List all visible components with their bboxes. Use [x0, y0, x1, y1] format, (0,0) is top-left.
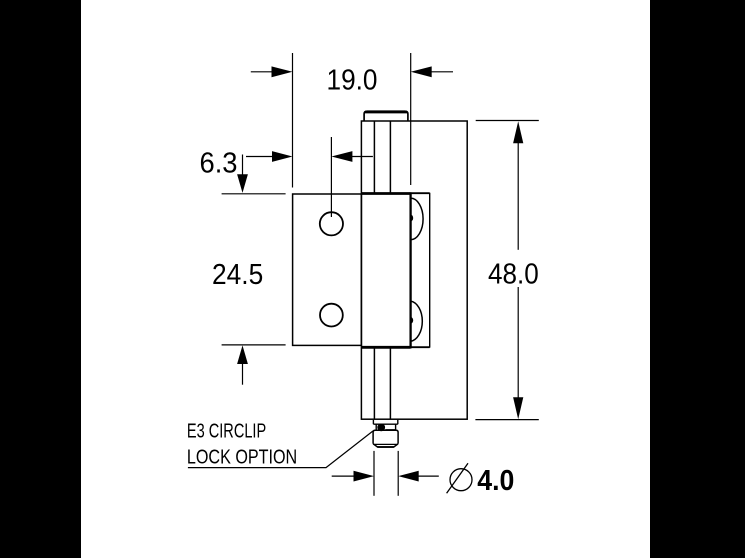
19.0 right arrow tail	[431, 71, 453, 73]
dia 4.0 right arrow tail	[418, 475, 439, 477]
upper pin end blob	[411, 215, 414, 222]
lower knuckle arc	[411, 301, 423, 341]
circlip cross-section (black dot)	[377, 424, 385, 432]
left leaf plate (face view)	[293, 194, 362, 345]
lower countersunk hole	[320, 304, 343, 327]
circlip groove	[376, 424, 395, 430]
svg-text:4.0: 4.0	[477, 465, 514, 497]
svg-text:24.5: 24.5	[212, 259, 263, 291]
leader line to circlip	[188, 431, 373, 468]
24.5 bottom arrow tail	[242, 363, 244, 385]
pin collar below plate	[373, 420, 397, 424]
24.5 top extension line	[222, 193, 286, 195]
48.0 bottom arrowhead	[513, 397, 523, 419]
pin upper segment	[374, 121, 390, 193]
24.5 top arrow tail	[242, 155, 244, 177]
inner plate strip behind knuckle	[411, 193, 430, 348]
6.3 right arrowhead	[331, 151, 352, 162]
48.0 dimension line lower segment	[517, 287, 519, 399]
48.0 top arrowhead	[513, 121, 523, 143]
pin lower segment	[374, 348, 390, 419]
19.0 right arrowhead	[411, 66, 432, 77]
19.0 left extension line	[292, 53, 294, 188]
dia 4.0 left arrow tail	[332, 475, 355, 477]
48.0 dimension line upper segment	[517, 142, 519, 250]
pin cap	[364, 111, 408, 120]
19.0 left arrow tail	[251, 71, 274, 73]
svg-text:19.0: 19.0	[327, 64, 378, 96]
svg-text:48.0: 48.0	[488, 259, 539, 291]
6.3 right arrow tail	[351, 156, 373, 158]
dia 4.0 right arrowhead	[398, 471, 419, 482]
dia 4.0 right extension line	[397, 451, 399, 496]
24.5 bottom arrowhead	[237, 345, 248, 364]
svg-text:LOCK OPTION: LOCK OPTION	[187, 445, 297, 468]
24.5 top arrowhead	[237, 174, 248, 193]
48.0 top extension line	[476, 120, 539, 122]
48.0 bottom extension line	[475, 419, 538, 421]
19.0 left arrowhead	[272, 66, 293, 77]
6.3 left arrow tail	[246, 156, 274, 158]
lower pin end blob	[411, 317, 414, 324]
dimension lines (thin)	[188, 53, 539, 496]
upper knuckle arc	[411, 198, 423, 240]
upper countersunk hole	[320, 212, 343, 235]
dia 4.0 left arrowhead	[354, 471, 375, 482]
dia 4.0 left extension line	[373, 451, 375, 496]
right leaf plate (edge view)	[361, 121, 467, 419]
diameter symbol	[447, 463, 472, 493]
left pillarbox bar	[0, 0, 81, 558]
svg-text:E3 CIRCLIP: E3 CIRCLIP	[187, 420, 266, 443]
hole centerline / 6.3 extension	[330, 137, 332, 217]
right pillarbox bar	[650, 0, 745, 558]
knuckle of left leaf (thick outline)	[361, 192, 410, 348]
pin end barrel	[373, 430, 398, 447]
24.5 bottom extension line	[222, 344, 286, 346]
arrowheads (filled)	[237, 66, 523, 481]
19.0 right extension line	[410, 53, 412, 185]
6.3 left arrowhead	[272, 151, 293, 162]
svg-text:6.3: 6.3	[200, 147, 238, 179]
